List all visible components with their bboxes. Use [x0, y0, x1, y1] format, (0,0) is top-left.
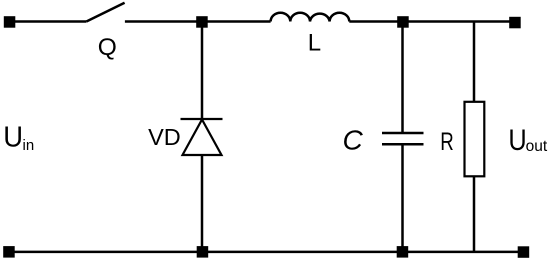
svg-text:VD: VD — [148, 124, 181, 150]
svg-text:R: R — [440, 128, 454, 156]
svg-text:U: U — [3, 121, 23, 153]
svg-text:C: C — [343, 124, 364, 155]
svg-text:in: in — [23, 137, 35, 154]
svg-text:L: L — [308, 29, 321, 56]
svg-text:out: out — [526, 138, 548, 155]
svg-text:U: U — [508, 124, 526, 157]
svg-text:Q: Q — [98, 34, 117, 61]
